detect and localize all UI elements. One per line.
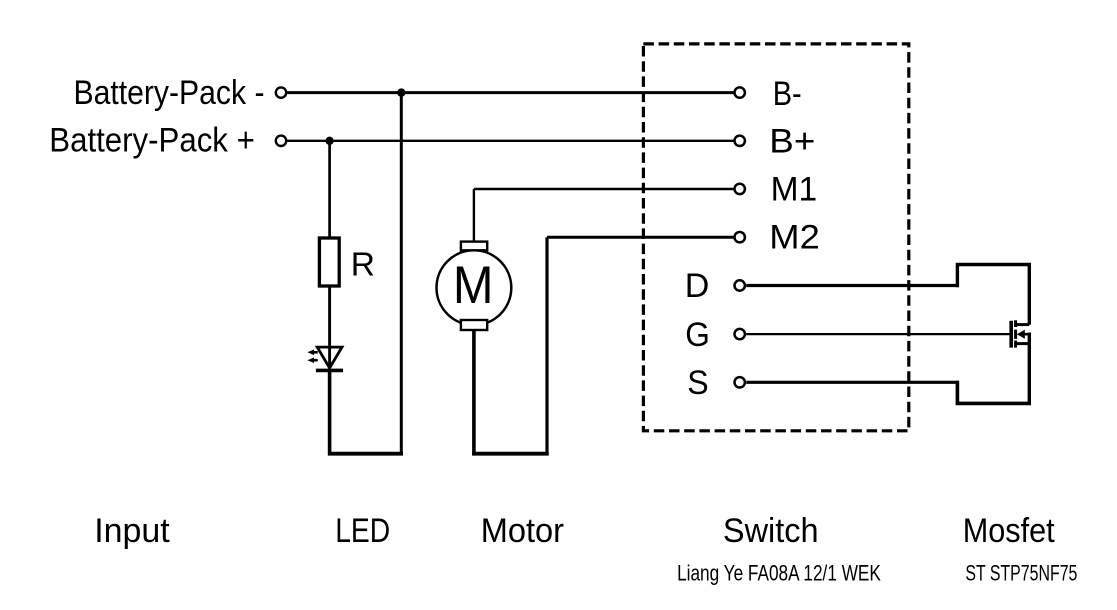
switch terminal circle G — [735, 329, 745, 339]
svg-text:M1: M1 — [771, 171, 818, 209]
wire LED bottom down — [328, 370, 332, 455]
svg-text:G: G — [685, 316, 710, 354]
switch terminal circle D — [735, 280, 745, 290]
resistor R — [319, 238, 339, 286]
switch terminal circle S — [735, 377, 745, 387]
junction on B+ wire — [325, 137, 333, 145]
wire M1 horizontal — [474, 188, 734, 191]
wire D step up and over — [957, 265, 1029, 325]
wire vertical branch from B- junction down — [400, 93, 403, 456]
svg-text:R: R — [351, 246, 375, 283]
svg-text:M2: M2 — [769, 219, 820, 257]
LED D1 triangle — [317, 347, 342, 368]
switch terminal circle B+ — [735, 136, 745, 146]
switch terminal circle M1 — [735, 184, 745, 194]
LED arrow 1 — [307, 350, 317, 356]
svg-text:Liang Ye FA08A 12/1 WEK: Liang Ye FA08A 12/1 WEK — [677, 561, 881, 586]
wire from B+ junction down to resistor — [328, 141, 331, 239]
wire M2 vertical — [545, 237, 548, 455]
svg-text:Battery-Pack +: Battery-Pack + — [49, 122, 255, 160]
motor M circle — [437, 250, 512, 325]
wire B+ from battery to switch — [287, 140, 734, 142]
wire from resistor to LED — [328, 286, 331, 370]
mosfet body arrow — [1017, 330, 1029, 339]
svg-text:D: D — [685, 267, 710, 305]
wire G from switch — [746, 333, 1009, 335]
motor brush top — [461, 242, 487, 251]
junction on B- wire — [397, 88, 405, 96]
svg-text:Motor: Motor — [481, 512, 564, 550]
wire LED loop bottom — [328, 452, 403, 456]
wire D from switch — [746, 284, 959, 287]
mosfet Q1 gate bar — [1009, 321, 1013, 348]
terminal circle Battery-Pack - — [276, 87, 286, 97]
switch dashed box — [643, 44, 908, 431]
wire motor top — [473, 189, 475, 243]
svg-text:Mosfet: Mosfet — [963, 512, 1055, 550]
wire drain tap — [1014, 323, 1029, 326]
mosfet channel segment middle — [1014, 330, 1017, 339]
wire motor bottom down — [472, 330, 476, 455]
wire source tap — [1015, 342, 1030, 345]
motor brush bottom — [461, 320, 487, 330]
mosfet channel segment bottom — [1014, 341, 1017, 348]
svg-text:Battery-Pack -: Battery-Pack - — [74, 74, 265, 112]
LED cathode bar — [316, 369, 343, 373]
mosfet channel segment top — [1014, 320, 1017, 327]
LED arrow 2 — [307, 357, 317, 363]
wire M2 horizontal — [547, 236, 734, 239]
svg-text:M: M — [453, 256, 494, 315]
svg-text:B-: B- — [773, 75, 802, 113]
svg-text:Input: Input — [94, 512, 170, 550]
switch terminal circle M2 — [735, 232, 745, 242]
svg-text:ST STP75NF75: ST STP75NF75 — [965, 561, 1077, 586]
svg-text:S: S — [687, 364, 708, 402]
wire S from switch — [746, 381, 959, 384]
wire source vertical — [1028, 333, 1031, 406]
svg-text:Switch: Switch — [723, 512, 819, 550]
svg-text:LED: LED — [335, 512, 390, 550]
wire motor loop bottom — [472, 452, 549, 456]
wire B- from battery to switch — [287, 91, 734, 94]
svg-text:B+: B+ — [769, 123, 815, 161]
switch terminal circle B- — [735, 87, 745, 97]
terminal circle Battery-Pack + — [276, 136, 286, 146]
wire S step down and over — [957, 381, 1031, 404]
